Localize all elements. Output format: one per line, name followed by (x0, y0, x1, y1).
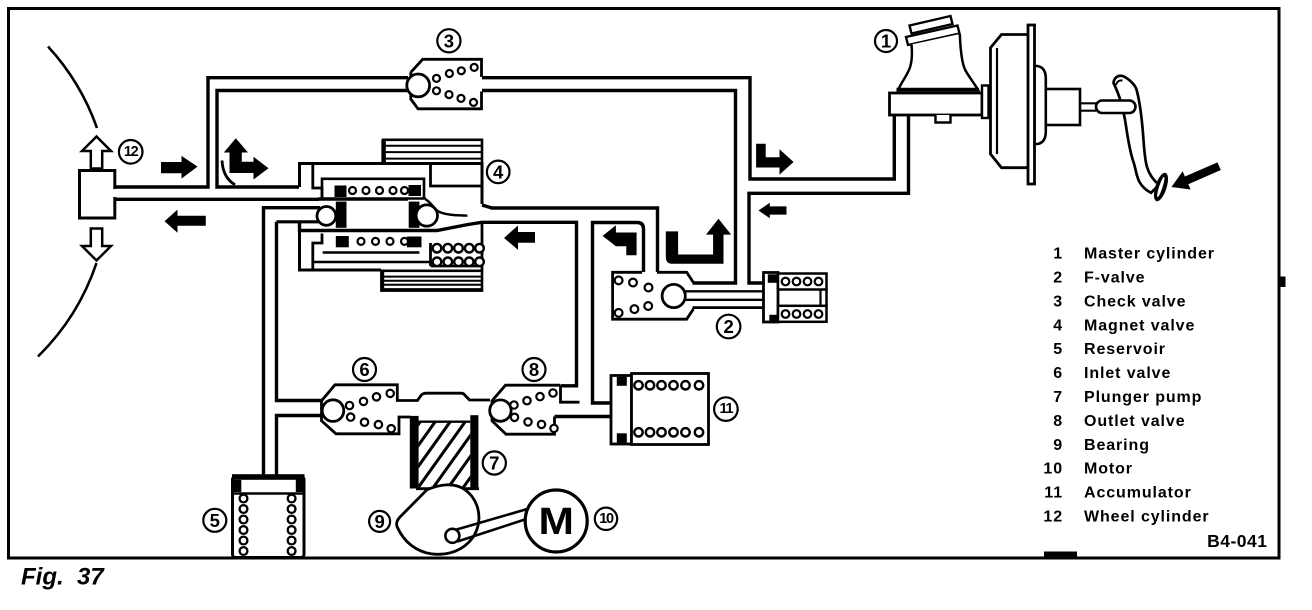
svg-text:Outlet valve: Outlet valve (1084, 413, 1186, 430)
label 6 (inlet valve) (353, 358, 376, 381)
master cylinder 1 neck base line (897, 88, 980, 90)
label 5 (reservoir) (203, 509, 226, 532)
outlet valve 8 ball (490, 400, 511, 421)
svg-text:Check valve: Check valve (1084, 293, 1186, 310)
svg-text:6: 6 (1053, 365, 1063, 382)
magnet valve 4 upper spring cage (318, 179, 426, 199)
F-valve 2 piston (764, 273, 779, 323)
accumulator 11 (611, 374, 709, 445)
motor 10 (525, 490, 587, 552)
svg-text:8: 8 (529, 359, 539, 380)
brake booster front dome (991, 35, 1029, 168)
wire: inlet valve lower wall back to down-pipe, to reservoir (277, 416, 323, 477)
label 2 (F-valve) (717, 315, 741, 339)
svg-text:4: 4 (493, 161, 504, 182)
outlet valve 8 spring dots (510, 389, 557, 432)
F-valve 2 lower finger (778, 306, 827, 322)
magnet valve 4 right ball seat (409, 202, 420, 228)
svg-text:Accumulator: Accumulator (1084, 485, 1192, 502)
reservoir 5 (232, 474, 305, 557)
flow arrow bend down+right (from master cylinder) (756, 144, 794, 175)
flow arrow bent left-down (pocket) (603, 225, 637, 255)
svg-text:3: 3 (1053, 293, 1063, 310)
wire: lower pipe bottom wall and left down-pipe outer wall to reservoir (264, 208, 321, 476)
magnet valve 4 lower housing (300, 222, 483, 270)
svg-text:7: 7 (489, 453, 499, 474)
label 1 (master cylinder) (875, 30, 897, 52)
svg-text:11: 11 (720, 401, 734, 417)
svg-text:10: 10 (1043, 461, 1063, 478)
F-valve 2 left body (613, 272, 694, 319)
hollow arrow down below wheel cylinder (82, 229, 111, 261)
svg-text:Bearing: Bearing (1084, 437, 1150, 454)
master cylinder 1 bottom tab (936, 115, 951, 123)
label 8 (outlet valve) (523, 358, 546, 381)
svg-text:6: 6 (359, 359, 369, 380)
booster power piston (1046, 89, 1080, 125)
flow arrow small left (to F-valve) (759, 203, 787, 218)
wire: master cylinder leg right wall, pipe bottom wall, feed pipe right wall into F-valve (749, 114, 909, 283)
F-valve 2 stem rod (685, 291, 764, 300)
svg-text:12: 12 (1043, 509, 1063, 526)
label 7 (plunger pump) (483, 451, 506, 474)
brake booster mounting flange (982, 86, 989, 119)
magnet valve 4 lower spring cage (323, 236, 422, 253)
clevis rod (1096, 101, 1136, 114)
svg-text:Motor: Motor (1084, 461, 1133, 478)
wire: wheel cylinder lower pipe top wall to magnet valve (113, 198, 319, 201)
svg-text:Plunger pump: Plunger pump (1084, 389, 1202, 406)
bearing 9 pivot circle (445, 529, 459, 543)
flow arrow at pedal (1167, 157, 1223, 196)
flow arrow U-turn up (to F-valve) (666, 219, 731, 264)
svg-text:2: 2 (723, 316, 733, 337)
svg-text:M: M (538, 499, 573, 542)
magnet valve 4 left ball (317, 207, 336, 226)
flow arrow right (to magnet valve) (161, 156, 198, 179)
inlet valve 6 body (322, 385, 491, 434)
wire: upper pipe inner wall / riser inner / top run lower wall (217, 91, 409, 188)
label 10 (motor) (595, 508, 617, 530)
master cylinder 1 body (890, 93, 983, 115)
F-valve 2 upper finger (778, 274, 827, 290)
svg-text:B4-041: B4-041 (1207, 531, 1267, 551)
magnet valve 4 left ball seat (336, 202, 347, 228)
wire: top run from check valve to junction, down-corner, pipe to master cylinder top wall (482, 78, 894, 179)
F-valve 2 body dots (615, 277, 653, 317)
svg-text:1: 1 (881, 31, 891, 52)
svg-text:8: 8 (1053, 413, 1063, 430)
scan artifact at right frame edge (1279, 277, 1286, 288)
svg-text:5: 5 (1053, 341, 1063, 358)
magnet valve 4 upper housing (300, 164, 483, 205)
F-valve 2 ball (662, 284, 685, 307)
brake drum arc lower segment (38, 263, 97, 357)
master cylinder 1 reservoir neck (898, 34, 978, 90)
wire: outlet valve to accumulator lower wall (555, 415, 612, 418)
wire: wheel cylinder upper pipe outer wall / riser to check valve / top run (113, 78, 408, 187)
F-valve 2 channel walls (693, 306, 764, 309)
check valve 3 ball (407, 74, 430, 97)
brake pedal pad (1151, 171, 1171, 203)
svg-text:5: 5 (210, 510, 220, 531)
brake drum arc upper segment (48, 47, 97, 129)
svg-text:10: 10 (599, 511, 614, 527)
magnet valve 4 outlet funnel curves (426, 199, 468, 215)
magnet valve 4 upper coil block (383, 140, 482, 164)
wire: pocket wall - drop pipe right wall, tee to accumulator, F-valve leg left wall (593, 223, 644, 404)
wire: magnet valve lower-left wall under left ball (277, 220, 319, 223)
wheel cylinder 12 (80, 171, 118, 219)
inlet valve 6 spring dots (346, 390, 395, 433)
svg-text:Reservoir: Reservoir (1084, 341, 1166, 358)
check valve 3 body (411, 59, 482, 109)
plunger pump 7 (369, 415, 530, 494)
outlet valve 8 body (492, 385, 611, 434)
svg-text:9: 9 (374, 511, 384, 532)
legend list (1043, 246, 1215, 526)
magnet valve 4 lower coil block (382, 271, 483, 291)
svg-text:12: 12 (124, 144, 139, 160)
svg-text:4: 4 (1053, 317, 1063, 334)
magnet valve 4 right ball (416, 205, 437, 226)
label 4 (magnet valve) (487, 161, 510, 184)
hollow arrow up above wheel cylinder (82, 137, 111, 169)
brake booster rear dome (1035, 66, 1046, 144)
wire: magnet valve outlet top wall, corner down to F-valve body (482, 205, 658, 272)
bearing 9 shaft to motor (455, 509, 531, 542)
scan artifact on bottom frame line (1044, 552, 1077, 559)
svg-text:Fig. 37: Fig. 37 (21, 564, 105, 591)
flow arrow left (return to wheel cylinder) (165, 210, 206, 233)
svg-text:11: 11 (1044, 485, 1063, 502)
F-valve 2 right closure lines (821, 290, 827, 306)
svg-text:2: 2 (1053, 270, 1063, 287)
master cylinder 1 reservoir cap (906, 16, 960, 45)
brake booster plate (1028, 25, 1035, 184)
label 9 (bearing) (369, 511, 390, 532)
bearing 9 (397, 485, 479, 555)
label 12 (wheel cylinder) (119, 140, 143, 164)
flow arrow left (into magnet valve outlet) (504, 226, 535, 250)
svg-text:Wheel cylinder: Wheel cylinder (1084, 509, 1210, 526)
svg-text:Inlet valve: Inlet valve (1084, 365, 1171, 382)
magnet valve 4 right chamber dots (433, 244, 484, 266)
wire: bottom housing top edge, outlet funnel lower wall, drop to outlet valve (300, 222, 577, 386)
pushrod (1080, 103, 1096, 110)
label 3 (check valve) (437, 29, 460, 52)
svg-text:1: 1 (1053, 246, 1063, 263)
brake pedal arm (1114, 76, 1160, 193)
svg-text:Magnet valve: Magnet valve (1084, 317, 1195, 334)
svg-text:F-valve: F-valve (1084, 270, 1145, 287)
check valve 3 spring dots (433, 64, 478, 106)
flow arrow bend up+right at riser (222, 138, 269, 185)
brake pedal top curl (1116, 80, 1123, 85)
svg-text:9: 9 (1053, 437, 1063, 454)
svg-text:3: 3 (444, 30, 454, 51)
inlet valve 6 ball (322, 400, 344, 422)
svg-text:7: 7 (1053, 389, 1063, 406)
wire: top run lower wall to F-valve feed pipe left wall, into valve channel (482, 91, 736, 284)
magnet valve 4 chamber mid line (318, 198, 408, 201)
wire: left down-pipe inner wall with tee to inlet valve (277, 222, 323, 401)
label 11 (accumulator) (714, 397, 738, 421)
svg-text:Master cylinder: Master cylinder (1084, 246, 1215, 263)
